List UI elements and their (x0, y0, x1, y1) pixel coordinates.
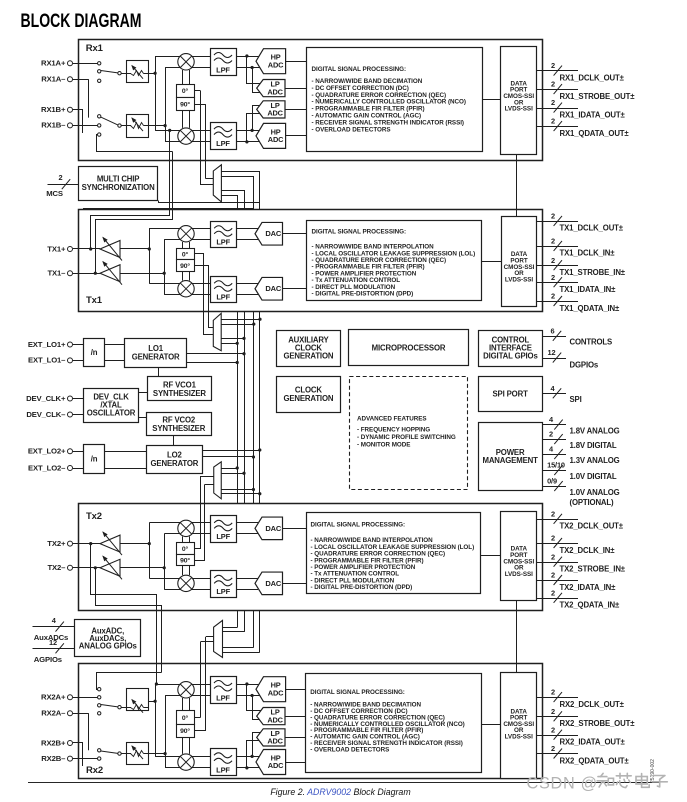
svg-text:RX2_DCLK_OUT±: RX2_DCLK_OUT± (560, 700, 625, 709)
svg-text:RX1_STROBE_OUT±: RX1_STROBE_OUT± (560, 92, 636, 101)
svg-text:LPF: LPF (216, 292, 230, 301)
svg-text:12: 12 (49, 638, 57, 647)
svg-text:TX1_DCLK_IN±: TX1_DCLK_IN± (560, 249, 616, 258)
svg-text:2: 2 (551, 236, 555, 245)
svg-text:LVDS-SSI: LVDS-SSI (505, 276, 533, 283)
svg-text:1.8V ANALOG: 1.8V ANALOG (570, 426, 620, 435)
svg-text:GENERATION: GENERATION (283, 394, 333, 403)
svg-text:RX2_STROBE_OUT±: RX2_STROBE_OUT± (560, 719, 636, 728)
svg-text:DAC: DAC (265, 229, 282, 238)
svg-text:DAC: DAC (265, 579, 282, 588)
svg-text:CONTROLS: CONTROLS (570, 338, 613, 347)
svg-text:DIGITAL GPIOs: DIGITAL GPIOs (483, 351, 538, 360)
svg-text:ADC: ADC (268, 135, 284, 144)
svg-text:- FREQUENCY HOPPING: - FREQUENCY HOPPING (357, 427, 430, 434)
svg-text:LPF: LPF (216, 765, 230, 774)
svg-text:TX1_QDATA_IN±: TX1_QDATA_IN± (560, 304, 621, 313)
svg-text:RX1B–: RX1B– (41, 121, 66, 130)
svg-text:2: 2 (551, 707, 555, 716)
svg-text:0°: 0° (182, 545, 189, 553)
svg-text:TX2_STROBE_IN±: TX2_STROBE_IN± (560, 564, 626, 573)
svg-text:TX2_IDATA_IN±: TX2_IDATA_IN± (560, 583, 617, 592)
svg-text:2: 2 (551, 211, 555, 220)
svg-text:ADC: ADC (268, 688, 284, 697)
svg-text:2: 2 (551, 588, 555, 597)
svg-text:DAC: DAC (265, 524, 282, 533)
svg-text:LPF: LPF (216, 587, 230, 596)
svg-text:Rx2: Rx2 (86, 765, 103, 776)
svg-text:TX2_DCLK_IN±: TX2_DCLK_IN± (560, 546, 616, 555)
svg-text:4: 4 (551, 384, 556, 393)
svg-text:LPF: LPF (216, 139, 230, 148)
svg-text:1.0V ANALOG: 1.0V ANALOG (570, 488, 620, 497)
svg-text:RX2B–: RX2B– (41, 754, 66, 763)
svg-text:Tx1: Tx1 (86, 295, 103, 306)
svg-text:ADC: ADC (267, 87, 283, 96)
svg-text:EXT_LO2–: EXT_LO2– (28, 463, 66, 472)
svg-text:GENERATION: GENERATION (283, 352, 333, 361)
svg-text:TX1+: TX1+ (47, 244, 66, 253)
svg-text:RX2A–: RX2A– (41, 709, 66, 718)
svg-text:DIGITAL SIGNAL PROCESSING:: DIGITAL SIGNAL PROCESSING: (310, 689, 405, 696)
svg-text:(OPTIONAL): (OPTIONAL) (570, 498, 615, 507)
svg-text:LPF: LPF (216, 693, 230, 702)
svg-text:90°: 90° (180, 262, 190, 270)
svg-text:RX1A–: RX1A– (41, 75, 66, 84)
svg-text:SYNTHESIZER: SYNTHESIZER (152, 424, 205, 433)
svg-text:ADC: ADC (268, 60, 284, 69)
svg-text:RX1B+: RX1B+ (41, 105, 66, 114)
svg-text:TX2–: TX2– (48, 563, 67, 572)
svg-text:4: 4 (549, 445, 554, 454)
svg-text:2: 2 (551, 256, 555, 265)
svg-text:RX1A+: RX1A+ (41, 59, 66, 68)
svg-text:TX1_IDATA_IN±: TX1_IDATA_IN± (560, 285, 617, 294)
svg-text:2: 2 (549, 430, 553, 439)
svg-text:15/10: 15/10 (547, 461, 565, 470)
svg-text:LPF: LPF (216, 237, 230, 246)
svg-text:RX1_IDATA_OUT±: RX1_IDATA_OUT± (560, 110, 626, 119)
svg-text:2: 2 (551, 117, 555, 126)
svg-text:ADC: ADC (267, 715, 283, 724)
svg-text:2: 2 (551, 744, 555, 753)
svg-text:RX1_DCLK_OUT±: RX1_DCLK_OUT± (560, 73, 625, 82)
svg-text:LPF: LPF (216, 532, 230, 541)
svg-text:TX1–: TX1– (48, 269, 67, 278)
svg-text:DEV_CLK–: DEV_CLK– (26, 410, 66, 419)
svg-text:0°: 0° (182, 87, 189, 95)
svg-text:LVDS-SSI: LVDS-SSI (505, 106, 533, 113)
svg-text:DAC: DAC (265, 284, 282, 293)
svg-text:RX1_QDATA_OUT±: RX1_QDATA_OUT± (560, 129, 630, 138)
svg-text:- DIGITAL PRE-DISTORTION (DPD): - DIGITAL PRE-DISTORTION (DPD) (311, 584, 413, 591)
svg-text:12: 12 (548, 348, 556, 357)
svg-text:2: 2 (551, 552, 555, 561)
svg-text:TX2_QDATA_IN±: TX2_QDATA_IN± (560, 601, 621, 610)
svg-text:1.8V DIGITAL: 1.8V DIGITAL (570, 441, 617, 450)
svg-text:Rx1: Rx1 (86, 43, 104, 54)
svg-text:90°: 90° (180, 556, 190, 564)
svg-text:- MONITOR MODE: - MONITOR MODE (357, 442, 410, 449)
svg-text:- OVERLOAD DETECTORS: - OVERLOAD DETECTORS (310, 746, 389, 753)
svg-text:2: 2 (551, 80, 555, 89)
svg-text:2: 2 (551, 571, 555, 580)
svg-text:MCS: MCS (46, 189, 63, 198)
svg-text:2: 2 (551, 61, 555, 70)
svg-text:BLOCK DIAGRAM: BLOCK DIAGRAM (21, 10, 142, 32)
svg-text:DEV_CLK+: DEV_CLK+ (26, 394, 66, 403)
svg-text:2: 2 (551, 688, 555, 697)
svg-text:ADC: ADC (267, 737, 283, 746)
svg-text:Figure 2. ADRV9002 Block Diagr: Figure 2. ADRV9002 Block Diagram (270, 787, 410, 797)
svg-text:DGPIOs: DGPIOs (570, 361, 599, 370)
svg-text:LVDS-SSI: LVDS-SSI (505, 571, 533, 578)
svg-text:RX2B+: RX2B+ (41, 738, 66, 747)
svg-text:2: 2 (551, 725, 555, 734)
svg-text:1.0V DIGITAL: 1.0V DIGITAL (570, 472, 617, 481)
svg-text:LVDS-SSI: LVDS-SSI (505, 733, 533, 740)
svg-text:2: 2 (551, 273, 555, 282)
svg-text:DIGITAL SIGNAL PROCESSING:: DIGITAL SIGNAL PROCESSING: (312, 229, 407, 236)
svg-text:- DYNAMIC PROFILE SWITCHING: - DYNAMIC PROFILE SWITCHING (357, 434, 456, 441)
svg-text:2: 2 (551, 98, 555, 107)
svg-text:SPI: SPI (570, 395, 582, 404)
svg-text:RX2_QDATA_OUT±: RX2_QDATA_OUT± (560, 756, 630, 765)
svg-text:EXT_LO2+: EXT_LO2+ (28, 447, 66, 456)
svg-text:- OVERLOAD DETECTORS: - OVERLOAD DETECTORS (312, 126, 391, 133)
svg-text:DIGITAL SIGNAL PROCESSING:: DIGITAL SIGNAL PROCESSING: (312, 66, 407, 73)
svg-text:ADC: ADC (268, 761, 284, 770)
svg-text:EXT_LO1+: EXT_LO1+ (28, 340, 66, 349)
svg-text:2: 2 (59, 173, 63, 182)
svg-text:TX1_STROBE_IN±: TX1_STROBE_IN± (560, 268, 626, 277)
svg-text:ANALOG GPIOs: ANALOG GPIOs (79, 642, 138, 651)
svg-text:AGPIOs: AGPIOs (34, 655, 62, 664)
svg-text:0/9: 0/9 (547, 477, 557, 486)
svg-text:0°: 0° (182, 714, 189, 722)
svg-text:4: 4 (52, 616, 57, 625)
svg-text:- DIGITAL PRE-DISTORTION (DPD): - DIGITAL PRE-DISTORTION (DPD) (312, 290, 414, 297)
svg-text:2: 2 (551, 534, 555, 543)
svg-text:Tx2: Tx2 (86, 511, 102, 522)
svg-text:/n: /n (91, 455, 98, 464)
svg-text:RX2A+: RX2A+ (41, 693, 66, 702)
svg-text:TX2+: TX2+ (47, 539, 66, 548)
svg-text:ADVANCED FEATURES: ADVANCED FEATURES (357, 415, 427, 422)
svg-text:4: 4 (549, 415, 554, 424)
svg-text:6: 6 (551, 326, 555, 335)
svg-text:TX1_DCLK_OUT±: TX1_DCLK_OUT± (560, 224, 624, 233)
svg-text:25190-002: 25190-002 (650, 759, 656, 783)
svg-text:MICROPROCESSOR: MICROPROCESSOR (372, 343, 446, 352)
svg-text:RX2_IDATA_OUT±: RX2_IDATA_OUT± (560, 737, 626, 746)
svg-text:OSCILLATOR: OSCILLATOR (87, 408, 136, 417)
svg-text:90°: 90° (180, 727, 190, 735)
svg-text:GENERATOR: GENERATOR (132, 353, 180, 362)
svg-text:2: 2 (551, 509, 555, 518)
svg-text:TX2_DCLK_OUT±: TX2_DCLK_OUT± (560, 522, 624, 531)
svg-text:LPF: LPF (216, 65, 230, 74)
svg-text:1.3V ANALOG: 1.3V ANALOG (570, 456, 620, 465)
svg-text:90°: 90° (180, 101, 190, 109)
svg-text:2: 2 (551, 292, 555, 301)
svg-text:GENERATOR: GENERATOR (151, 459, 199, 468)
svg-text:SYNCHRONIZATION: SYNCHRONIZATION (82, 183, 155, 192)
svg-text:/n: /n (91, 348, 98, 357)
svg-text:SYNTHESIZER: SYNTHESIZER (153, 389, 206, 398)
svg-text:EXT_LO1–: EXT_LO1– (28, 356, 66, 365)
svg-text:ADC: ADC (267, 109, 283, 118)
svg-text:SPI PORT: SPI PORT (492, 390, 528, 399)
svg-text:CSDN @: CSDN @ (527, 775, 598, 793)
svg-text:MANAGEMENT: MANAGEMENT (482, 456, 538, 465)
svg-text:DIGITAL SIGNAL PROCESSING:: DIGITAL SIGNAL PROCESSING: (311, 522, 406, 529)
svg-text:0°: 0° (182, 250, 189, 258)
